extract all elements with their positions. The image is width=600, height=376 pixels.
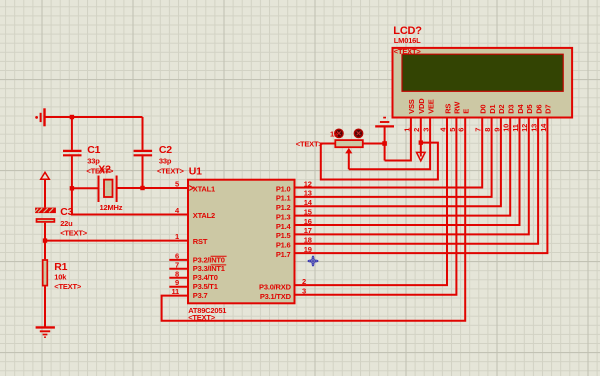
svg-text:C3: C3 (60, 206, 73, 218)
svg-text:RST: RST (193, 237, 208, 246)
svg-text:D2: D2 (497, 105, 506, 114)
svg-text:16: 16 (304, 217, 312, 226)
svg-text:U1: U1 (189, 165, 202, 177)
svg-text:P3.2/INT0: P3.2/INT0 (193, 255, 225, 264)
svg-text:11: 11 (511, 124, 520, 132)
svg-text:7: 7 (474, 128, 483, 132)
svg-text:P3.3/INT1: P3.3/INT1 (193, 264, 225, 273)
svg-text:14: 14 (539, 123, 548, 132)
svg-text:RS: RS (443, 104, 452, 114)
svg-text:P1.0: P1.0 (276, 184, 291, 193)
svg-text:D4: D4 (516, 104, 525, 114)
svg-text:XTAL1: XTAL1 (193, 185, 215, 194)
svg-text:D7: D7 (544, 105, 553, 114)
svg-text:10: 10 (502, 124, 511, 132)
svg-text:P1.3: P1.3 (276, 212, 291, 221)
svg-text:3: 3 (422, 128, 431, 132)
svg-text:LM016L: LM016L (394, 36, 421, 45)
svg-text:17: 17 (304, 226, 312, 235)
svg-text:15: 15 (304, 207, 312, 216)
svg-text:6: 6 (457, 128, 466, 132)
svg-text:E: E (462, 109, 471, 114)
svg-text:VEE: VEE (426, 99, 435, 114)
svg-text:18: 18 (304, 236, 312, 245)
svg-text:3: 3 (302, 287, 306, 296)
svg-text:P1.2: P1.2 (276, 203, 291, 212)
svg-text:<TEXT>: <TEXT> (188, 313, 216, 322)
svg-text:VSS: VSS (407, 99, 416, 114)
svg-text:XTAL2: XTAL2 (193, 211, 215, 220)
svg-text:9: 9 (492, 128, 501, 132)
svg-text:P1.1: P1.1 (276, 194, 291, 203)
svg-text:D3: D3 (507, 105, 516, 114)
svg-text:5: 5 (448, 128, 457, 132)
svg-text:2: 2 (302, 277, 306, 286)
svg-text:14: 14 (304, 198, 313, 207)
svg-text:P3.7: P3.7 (193, 291, 208, 300)
svg-text:8: 8 (483, 128, 492, 132)
svg-text:P1.7: P1.7 (276, 250, 291, 259)
svg-text:R1: R1 (54, 261, 67, 273)
svg-text:C2: C2 (159, 144, 172, 156)
svg-text:13: 13 (530, 124, 539, 132)
svg-text:33p: 33p (159, 156, 172, 165)
svg-text:19: 19 (304, 245, 312, 254)
svg-text:P3.4/T0: P3.4/T0 (193, 273, 218, 282)
svg-text:<TEXT>: <TEXT> (60, 229, 88, 238)
svg-text:P3.5/T1: P3.5/T1 (193, 282, 218, 291)
svg-text:<TEXT>: <TEXT> (157, 167, 185, 176)
svg-text:1: 1 (402, 128, 411, 132)
svg-text:D6: D6 (534, 105, 543, 114)
svg-text:RW: RW (453, 101, 462, 114)
svg-text:VDD: VDD (417, 98, 426, 114)
svg-text:<TEXT>: <TEXT> (394, 47, 422, 56)
svg-text:12: 12 (304, 179, 312, 188)
svg-text:P3.0/RXD: P3.0/RXD (259, 282, 292, 291)
svg-text:2: 2 (412, 128, 421, 132)
svg-text:5: 5 (175, 179, 179, 188)
svg-text:P1.6: P1.6 (276, 241, 291, 250)
svg-text:9: 9 (175, 278, 179, 287)
svg-text:22u: 22u (60, 219, 73, 228)
svg-text:1k: 1k (330, 130, 339, 139)
svg-text:<TEXT>: <TEXT> (54, 282, 82, 291)
svg-text:12MHz: 12MHz (100, 203, 123, 212)
svg-text:D5: D5 (525, 105, 534, 114)
svg-text:P1.5: P1.5 (276, 231, 291, 240)
svg-text:<TEXT>: <TEXT> (296, 140, 324, 149)
svg-text:P1.4: P1.4 (276, 222, 292, 231)
svg-text:8: 8 (175, 269, 179, 278)
svg-text:7: 7 (175, 260, 179, 269)
svg-text:C1: C1 (87, 144, 100, 156)
svg-text:P3.1/TXD: P3.1/TXD (260, 292, 292, 301)
svg-text:D0: D0 (479, 105, 488, 114)
svg-text:D1: D1 (488, 105, 497, 114)
svg-text:10k: 10k (54, 273, 67, 282)
svg-text:13: 13 (304, 189, 312, 198)
svg-text:6: 6 (175, 251, 179, 260)
svg-text:12: 12 (520, 124, 529, 132)
svg-text:1: 1 (175, 232, 179, 241)
svg-text:11: 11 (171, 287, 179, 296)
svg-text:X2: X2 (98, 163, 111, 175)
